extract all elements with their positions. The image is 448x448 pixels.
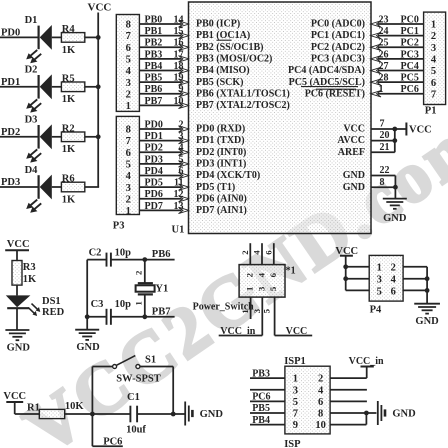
svg-text:PC6: PC6 (103, 436, 122, 447)
resistor R3 1K (12, 261, 37, 286)
svg-text:8: 8 (126, 125, 131, 136)
ground GND (power LED) (5, 330, 30, 353)
resistor R1 10K (27, 401, 84, 418)
U1 pin label PC2 (ADC2) (311, 42, 365, 53)
svg-text:PB6: PB6 (145, 84, 163, 95)
node PD2 (1, 127, 20, 138)
ground GND (reset, rotated) (185, 402, 223, 426)
svg-text:AREF: AREF (338, 147, 365, 158)
svg-text:4: 4 (431, 54, 437, 65)
svg-text:S1: S1 (145, 354, 156, 365)
wire rail to C3 (87, 316, 106, 318)
svg-text:DS1: DS1 (42, 296, 61, 307)
svg-text:SW-SPST: SW-SPST (116, 373, 161, 384)
U1 overline over RESET (PC6) (316, 88, 356, 90)
svg-text:4: 4 (252, 250, 262, 255)
svg-text:PC1 (ADC1): PC1 (ADC1) (311, 30, 365, 41)
wire net PB0 (pin 14) P3 to U1 (139, 14, 189, 27)
switch S1 SW-SPST (92, 354, 173, 384)
U1 pin label PC1 (ADC1) (311, 30, 365, 41)
wire ISP pin 9 net PB4 (250, 415, 285, 426)
wire U1 pin 8 GND (371, 177, 395, 188)
wire net PB7 (pin 10) P3 to U1 (139, 96, 189, 109)
ground GND (ISP, rotated) (378, 401, 416, 425)
svg-text:4: 4 (126, 66, 132, 77)
svg-text:6: 6 (126, 148, 131, 159)
svg-text:28: 28 (379, 73, 389, 84)
svg-text:PD6 (AIN0): PD6 (AIN0) (196, 193, 247, 204)
wire crystal pin 2 (134, 260, 145, 284)
svg-text:20: 20 (380, 130, 390, 141)
svg-text:PB0: PB0 (145, 14, 163, 25)
svg-text:GND: GND (415, 316, 439, 327)
svg-text:6: 6 (268, 272, 278, 277)
svg-text:5: 5 (126, 54, 131, 65)
svg-text:6: 6 (263, 250, 273, 255)
wire net PC6 stub (92, 436, 122, 447)
svg-text:2: 2 (391, 263, 396, 274)
label *1 (286, 265, 296, 276)
junction on VCC rail (96, 134, 101, 139)
svg-text:7: 7 (126, 31, 131, 42)
ground GND (crystal) (75, 330, 100, 354)
wire net PC6 (pin 1) U1 to P1 (371, 84, 424, 97)
U1 pin label PB4 (MISO) (196, 65, 250, 76)
svg-text:VCC: VCC (343, 124, 365, 135)
svg-text:PB1 (OC1A): PB1 (OC1A) (196, 30, 250, 41)
wire ISP pin 1 net PB3 (250, 368, 285, 379)
wire VCC/AVCC/AREF tie (392, 127, 397, 153)
U1 pin label PB2 (SS/OC1B) (196, 42, 264, 53)
power switch top pin 2 (240, 243, 251, 264)
connector P3 upper block (pins 8-1, PB bus) (116, 15, 139, 113)
wire U1 pin 20 AVCC (371, 130, 395, 141)
U1 underline under ADC5/SCL (PC5) (301, 86, 358, 88)
svg-text:VCC: VCC (7, 239, 30, 250)
U1 pin label PB3 (MOSI/OC2) (196, 53, 272, 64)
wire R3 to DS1 (16, 285, 18, 295)
svg-text:PD3: PD3 (145, 154, 163, 165)
capacitor C2 10p (89, 247, 132, 266)
svg-text:1K: 1K (62, 45, 76, 56)
U1 pin label PB7 (XTAL2/TOSC2) (196, 100, 290, 111)
svg-text:3: 3 (126, 78, 131, 89)
svg-text:C2: C2 (89, 247, 102, 258)
junction on VCC rail (96, 84, 101, 89)
svg-text:*1: *1 (286, 265, 296, 276)
op-amp U1 (MCU ATmega8 body) (172, 2, 372, 236)
svg-text:PB5 (SCK): PB5 (SCK) (196, 77, 244, 88)
wire PC6 node to C1 (92, 413, 130, 415)
wire net PB6 (111, 249, 175, 260)
svg-text:Y1: Y1 (155, 283, 168, 294)
wire ISP pin 7 net PB5 (250, 403, 285, 414)
svg-text:AVCC: AVCC (337, 135, 365, 146)
svg-text:5: 5 (126, 159, 131, 170)
svg-text:22: 22 (380, 165, 390, 176)
svg-text:5: 5 (431, 66, 436, 77)
U1 pin label GND (343, 170, 365, 181)
svg-text:R1: R1 (27, 402, 40, 413)
connector P3 lower block (pins 8-1, PD bus) (116, 116, 139, 217)
svg-text:1K: 1K (23, 274, 37, 285)
svg-text:R3: R3 (23, 262, 36, 273)
svg-text:PB1: PB1 (145, 26, 163, 37)
crystal Y1 (136, 283, 169, 294)
svg-text:7: 7 (293, 409, 298, 420)
svg-text:10uf: 10uf (126, 425, 146, 436)
wire P4 pin2 (403, 266, 427, 268)
power switch top pin 4 (252, 243, 263, 264)
power switch bottom pin 1 (NC) (240, 297, 251, 319)
svg-text:3: 3 (256, 286, 266, 291)
svg-text:PB7: PB7 (145, 96, 163, 107)
wire U1 pin 21 AREF (371, 142, 395, 153)
wire resistor R2 to VCC rail (85, 136, 99, 138)
svg-text:GND: GND (383, 213, 407, 224)
svg-text:3: 3 (126, 183, 131, 194)
ground GND (P4) (414, 304, 440, 327)
svg-text:4: 4 (318, 385, 324, 396)
svg-text:PD5: PD5 (145, 178, 163, 189)
wire C1 to ground (137, 412, 185, 417)
svg-text:PC1: PC1 (401, 26, 419, 37)
wire VCC to R1 (15, 413, 40, 415)
svg-text:PB4: PB4 (252, 415, 270, 426)
wire GND tie (393, 176, 398, 199)
U1 pin label PD6 (AIN0) (196, 193, 247, 204)
svg-text:PB6: PB6 (152, 249, 171, 260)
svg-text:PB6 (XTAL1/TOSC1): PB6 (XTAL1/TOSC1) (196, 88, 290, 99)
svg-text:1: 1 (245, 287, 255, 291)
U1 pin label PD1 (TXD) (196, 135, 245, 146)
svg-text:2: 2 (431, 31, 436, 42)
svg-text:PC6: PC6 (401, 84, 419, 95)
svg-text:VCC_in: VCC_in (349, 356, 384, 367)
power port VCC (P4) (335, 246, 358, 257)
wire resistor R4 to VCC rail (85, 36, 99, 38)
wire P4 pin6 (403, 289, 427, 291)
svg-text:P4: P4 (370, 305, 382, 316)
wire net PD3 (pin 5) P3 to U1 (139, 154, 189, 167)
svg-text:PD2: PD2 (145, 143, 163, 154)
svg-text:VCC: VCC (3, 391, 26, 402)
svg-text:1: 1 (240, 309, 250, 313)
wire P4 pin1 (346, 266, 370, 268)
junction PC6 node (90, 412, 95, 417)
svg-text:P3: P3 (113, 220, 125, 231)
svg-text:26: 26 (379, 49, 389, 60)
svg-text:PD1 (TXD): PD1 (TXD) (196, 135, 245, 146)
svg-text:PC2: PC2 (401, 38, 419, 49)
wire LED D3 to resistor R2 (52, 136, 62, 138)
power switch bottom pin 5 (261, 297, 274, 335)
svg-text:PB5: PB5 (252, 403, 270, 414)
wire net PD4 (pin 6) P3 to U1 (139, 166, 189, 179)
wire ISP pin 5 net PC6 (250, 392, 285, 403)
svg-text:2: 2 (240, 250, 250, 255)
svg-text:PB4: PB4 (145, 61, 163, 72)
svg-text:PC0: PC0 (401, 14, 419, 25)
svg-text:P1: P1 (425, 106, 437, 117)
wire P4 pin4 (403, 278, 427, 280)
U1 pin label PD3 (INT1) (196, 158, 246, 169)
wire LED D1 to resistor R4 (52, 36, 62, 38)
svg-text:PC3: PC3 (401, 49, 419, 60)
svg-text:PC6 (RESET): PC6 (RESET) (305, 88, 365, 99)
wire crystal pin 1 (134, 294, 145, 316)
svg-text:1: 1 (377, 263, 382, 274)
wire ISP pin 10 to ground (330, 413, 366, 425)
wire P4 pin3 (346, 278, 370, 280)
U1 pin label AVCC (337, 135, 365, 146)
svg-text:PB0 (ICP): PB0 (ICP) (196, 19, 240, 30)
svg-text:U1: U1 (172, 225, 185, 236)
wire net PB1 (pin 15) P3 to U1 (139, 26, 189, 39)
ground GND (U1) (383, 199, 407, 225)
svg-text:4: 4 (256, 272, 266, 277)
svg-text:25: 25 (379, 38, 389, 49)
U1 pin label PB5 (SCK) (196, 77, 244, 88)
svg-text:6: 6 (126, 43, 131, 54)
wire net PC0 (pin 23) U1 to P1 (371, 14, 424, 27)
wire net PB3 (pin 17) P3 to U1 (139, 49, 189, 62)
svg-text:10: 10 (315, 420, 326, 431)
label ISP1 (284, 356, 306, 367)
svg-text:24: 24 (379, 26, 389, 37)
svg-text:1: 1 (293, 374, 298, 385)
svg-text:PC0 (ADC0): PC0 (ADC0) (311, 19, 365, 30)
U1 pin label PD5 (T1) (196, 182, 235, 193)
svg-text:9: 9 (293, 420, 298, 431)
svg-text:GND: GND (7, 342, 31, 353)
svg-text:PC4 (ADC4/SDA): PC4 (ADC4/SDA) (288, 65, 365, 76)
svg-text:RED: RED (42, 307, 65, 318)
svg-text:5: 5 (293, 397, 298, 408)
junction on VCC rail (96, 35, 101, 40)
wire cap ground rail (85, 260, 90, 330)
U1 pin label PC5 (ADC5/SCL) (289, 77, 365, 88)
svg-text:6: 6 (391, 286, 396, 297)
svg-text:8: 8 (318, 409, 323, 420)
wire rail to C2 (87, 259, 106, 261)
wire VCC rail (97, 13, 99, 188)
svg-text:1: 1 (126, 206, 131, 217)
wire net PB5 (pin 19) P3 to U1 (139, 73, 189, 86)
svg-text:PB5: PB5 (145, 73, 163, 84)
svg-text:GND: GND (343, 170, 365, 181)
svg-text:1: 1 (126, 101, 131, 112)
wire net PC5 (pin 28) U1 to P1 (371, 73, 424, 86)
power port VCC (reset) (3, 391, 26, 414)
svg-text:PC2 (ADC2): PC2 (ADC2) (311, 42, 365, 53)
LED D2 (25, 65, 52, 113)
wire ISP pin 3 (250, 389, 285, 391)
svg-text:ISP: ISP (284, 439, 301, 448)
wire net PD5 (pin 11) P3 to U1 (139, 178, 189, 191)
svg-text:PD5 (T1): PD5 (T1) (196, 182, 235, 193)
svg-text:2: 2 (126, 194, 131, 205)
power switch top pin 6 (263, 243, 274, 264)
svg-text:GND: GND (392, 409, 416, 420)
label P1 (425, 106, 437, 117)
svg-text:1K: 1K (62, 144, 76, 155)
svg-text:GND: GND (200, 409, 224, 420)
svg-text:2: 2 (126, 89, 131, 100)
svg-text:PD0 (RXD): PD0 (RXD) (196, 124, 245, 135)
svg-text:D1: D1 (25, 15, 38, 26)
U1 pin label PD4 (XCK/T0) (196, 170, 260, 181)
switch Power_Switch body (239, 265, 285, 298)
wire net PD7 (pin 13) P3 to U1 (139, 201, 189, 214)
wire net PC4 (pin 27) U1 to P1 (371, 61, 424, 74)
svg-text:21: 21 (380, 142, 390, 153)
svg-text:6: 6 (431, 78, 436, 89)
wire net VCC_in (power switch) (219, 326, 263, 337)
svg-text:10K: 10K (65, 401, 85, 412)
connector P4 (pins 1-6) (369, 255, 403, 301)
label ISP (284, 439, 301, 448)
svg-text:PD1: PD1 (145, 131, 163, 142)
wire R1 to PC6 node (65, 413, 93, 415)
wire net VCC (power switch) (275, 326, 313, 337)
node PD0 (1, 27, 20, 38)
label Power_Switch (193, 301, 255, 312)
svg-text:3: 3 (431, 43, 436, 54)
wire net PB6 (pin 9) P3 to U1 (139, 84, 189, 97)
svg-text:5: 5 (268, 286, 278, 291)
svg-text:PB3: PB3 (145, 49, 163, 60)
U1 pin label PC6 (RESET) (305, 88, 365, 99)
wire net PC1 (pin 24) U1 to P1 (371, 26, 424, 39)
svg-text:PC4: PC4 (401, 61, 419, 72)
resistor R4 1K (61, 24, 84, 56)
power port VCC (U1) (395, 123, 432, 136)
svg-text:8: 8 (126, 20, 131, 31)
power port VCC (power LED) (5, 239, 29, 260)
LED DS1 RED (6, 295, 65, 318)
svg-text:4: 4 (126, 171, 132, 182)
svg-text:PB3: PB3 (252, 368, 270, 379)
svg-text:PC5: PC5 (401, 73, 419, 84)
LED D3 (25, 115, 52, 163)
wire net PC3 (pin 26) U1 to P1 (371, 49, 424, 62)
svg-text:2: 2 (245, 272, 255, 277)
svg-text:PD4 (XCK/T0): PD4 (XCK/T0) (196, 170, 260, 181)
svg-text:7: 7 (380, 119, 385, 130)
svg-text:3: 3 (377, 275, 382, 286)
U1 pin label PD0 (RXD) (196, 124, 245, 135)
U1 pin label PC0 (ADC0) (311, 19, 365, 30)
wire S1 right leg (172, 367, 174, 415)
wire ISP pin 2 to VCC_in (330, 356, 384, 378)
svg-text:PD3 (INT1): PD3 (INT1) (196, 158, 246, 169)
svg-text:1K: 1K (62, 194, 76, 205)
wire resistor R5 to VCC rail (85, 86, 99, 88)
wire P4 pin5 (346, 289, 370, 291)
wire net PC2 (pin 25) U1 to P1 (371, 38, 424, 51)
connector P1 (pins 1-7) (424, 12, 446, 104)
svg-text:VCC: VCC (286, 326, 308, 337)
U1 pin label VCC (343, 124, 365, 135)
capacitor C1 10uf (126, 392, 146, 435)
U1 overline over SS (PB2) (217, 39, 232, 41)
U1 pin label PB6 (XTAL1/TOSC1) (196, 88, 290, 99)
U1 pin label AREF (338, 147, 365, 158)
svg-text:D3: D3 (25, 115, 38, 126)
capacitor C3 10p (91, 299, 132, 325)
wire U1 pin 22 GND (371, 165, 395, 176)
wire PD3 to LED D4 (0, 186, 39, 188)
svg-text:1: 1 (379, 84, 384, 95)
U1 pin label PD7 (AIN1) (196, 205, 247, 216)
svg-text:PD7: PD7 (145, 201, 163, 212)
svg-text:PB7: PB7 (152, 306, 171, 317)
svg-text:VCC: VCC (88, 2, 112, 14)
U1 pin label PD2 (INT0) (196, 147, 246, 158)
wire PC6 node vertical (91, 367, 93, 447)
wire net PB2 (pin 16) P3 to U1 (139, 38, 189, 51)
wire net PD2 (pin 4) P3 to U1 (139, 143, 189, 156)
svg-text:1K: 1K (62, 94, 76, 105)
resistor R5 1K (61, 73, 84, 105)
svg-text:6: 6 (318, 397, 323, 408)
svg-text:PD7 (AIN1): PD7 (AIN1) (196, 205, 247, 216)
resistor R2 1K (61, 123, 84, 155)
U1 pin label PB1 (OC1A) (196, 30, 250, 41)
svg-text:PD2 (INT0): PD2 (INT0) (196, 147, 246, 158)
svg-text:7: 7 (431, 89, 436, 100)
wire net PB4 (pin 18) P3 to U1 (139, 61, 189, 74)
label P4 (370, 305, 382, 316)
svg-text:2: 2 (134, 270, 144, 275)
wire DS1 to ground (16, 308, 18, 330)
svg-text:10p: 10p (115, 247, 132, 258)
wire ISP pin 8 to ground (330, 411, 376, 416)
svg-text:VCC_in: VCC_in (220, 326, 255, 337)
svg-text:VCC: VCC (409, 125, 432, 136)
U1 pin label PB0 (ICP) (196, 19, 240, 30)
svg-text:GND: GND (76, 342, 100, 353)
junction PB6/crystal (142, 257, 147, 262)
svg-text:4: 4 (391, 275, 397, 286)
svg-text:PC3 (ADC3): PC3 (ADC3) (311, 53, 365, 64)
svg-text:2: 2 (318, 374, 323, 385)
label P3 (113, 220, 125, 231)
svg-text:7: 7 (126, 136, 131, 147)
wire U1 pin 7 VCC (371, 119, 395, 130)
svg-text:5: 5 (261, 308, 271, 313)
U1 pin label GND (343, 182, 365, 193)
svg-text:27: 27 (379, 61, 389, 72)
power switch bottom pin 3 (252, 297, 263, 335)
resistor R6 1K (61, 174, 84, 206)
wire resistor R6 to VCC rail (85, 186, 99, 188)
connector ISP1 (pins 1-10) (285, 366, 330, 434)
svg-text:PC6: PC6 (252, 392, 270, 403)
svg-text:3: 3 (252, 308, 262, 313)
LED D4 (25, 165, 52, 213)
wire P4 ground rail (425, 267, 430, 304)
svg-text:PD4: PD4 (145, 166, 163, 177)
svg-text:1: 1 (134, 301, 144, 305)
U1 pin label PC4 (ADC4/SDA) (288, 65, 365, 76)
wire ISP pin 6 stub (330, 400, 367, 402)
svg-text:8: 8 (380, 177, 385, 188)
svg-text:D2: D2 (25, 65, 38, 76)
svg-text:PB3 (MOSI/OC2): PB3 (MOSI/OC2) (196, 53, 272, 64)
svg-text:5: 5 (377, 286, 382, 297)
